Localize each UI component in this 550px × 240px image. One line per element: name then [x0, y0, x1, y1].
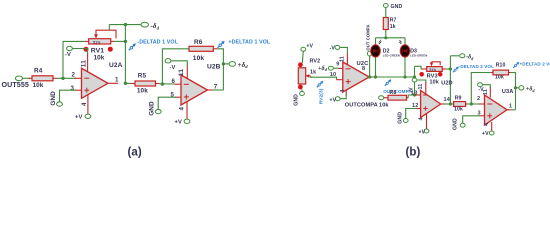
svg-text:10k: 10k [94, 54, 105, 61]
svg-text:GND: GND [398, 112, 404, 124]
junction pin2 node (b) [470, 102, 473, 105]
wire top to terminal [109, 24, 141, 26]
svg-text:OUT555: OUT555 [2, 81, 29, 89]
svg-text:4: 4 [178, 107, 185, 111]
svg-text:LED-GREEN: LED-GREEN [410, 54, 427, 58]
terminal +V RV2 [301, 44, 314, 52]
junction terminal branch [222, 62, 225, 65]
svg-text:+DELTAD 1 VOL: +DELTAD 1 VOL [228, 39, 271, 45]
svg-text:GND: GND [453, 118, 459, 130]
probe -DELTAD 1 VOL [129, 39, 179, 50]
op-amp U2B [171, 64, 221, 119]
svg-text:10k: 10k [454, 107, 463, 113]
svg-text:+δd: +δd [238, 61, 249, 69]
junction R7 [384, 36, 387, 39]
svg-text:11: 11 [81, 60, 88, 68]
svg-text:6: 6 [172, 78, 176, 85]
junction output [124, 82, 127, 85]
op-amp U2A [71, 53, 123, 114]
wire R9 to U3A pin2 [468, 103, 479, 105]
ground GND RV2 [294, 89, 305, 105]
svg-text:R9: R9 [455, 96, 462, 102]
probe RV2(3) [317, 81, 325, 104]
wire top corner to RV3 left [415, 66, 422, 69]
terminal OUT COMPA vertical [365, 24, 372, 77]
svg-text:4: 4 [484, 123, 490, 126]
power -V U2A [65, 46, 88, 58]
wire RV1 right to vertical bus [115, 40, 126, 42]
svg-text:GND: GND [50, 91, 57, 106]
wire vertical bus RV1/output [124, 25, 126, 84]
power -V U3A [478, 83, 491, 93]
wire LED tops to R7 [376, 37, 406, 39]
svg-text:10k: 10k [33, 82, 44, 89]
svg-text:R4: R4 [34, 67, 43, 74]
svg-text:-DELTAD 1 VOL: -DELTAD 1 VOL [137, 39, 178, 45]
wire pin2 node up to R10 [471, 73, 491, 105]
probe -DELTAD 2 VOL [453, 64, 494, 72]
resistor R5 [131, 72, 160, 94]
svg-text:GND: GND [149, 101, 156, 116]
junction RV1 right [124, 40, 127, 43]
svg-text:-DELTAD 2 VOL: -DELTAD 2 VOL [459, 64, 494, 69]
svg-text:10k: 10k [137, 88, 148, 95]
svg-text:R6: R6 [194, 39, 203, 46]
svg-text:U2A: U2A [109, 62, 123, 69]
svg-text:R8: R8 [390, 90, 397, 96]
svg-text:2: 2 [72, 72, 76, 79]
svg-text:51%: 51% [93, 40, 101, 44]
svg-text:R7: R7 [390, 18, 397, 24]
power +V U2B [175, 119, 190, 125]
svg-text:1: 1 [509, 104, 512, 110]
svg-text:1k: 1k [390, 24, 396, 30]
svg-text:+V: +V [330, 98, 337, 104]
svg-text:+DELTAD 2 VOL: +DELTAD 2 VOL [520, 61, 550, 66]
svg-text:(a): (a) [128, 147, 142, 159]
probe +DELTAD 2 VOL [513, 61, 550, 68]
svg-text:3: 3 [71, 85, 75, 92]
svg-text:10: 10 [330, 72, 336, 78]
probe OUT COMPA [383, 79, 412, 93]
wire out bus down to pin13 [414, 66, 416, 95]
svg-text:11: 11 [483, 89, 489, 95]
svg-text:+V: +V [482, 131, 489, 137]
terminal +deltad input [318, 66, 333, 72]
terminal +deltad (b) [519, 86, 536, 93]
wire U2D out to R9 [445, 103, 454, 105]
wire R6 right down to output [217, 49, 223, 90]
wire U2B out to corner [213, 89, 224, 91]
svg-text:U2B: U2B [207, 64, 221, 71]
wire R4 to U2A pin2 [57, 77, 76, 79]
svg-text:OUTCOMPA: OUTCOMPA [345, 103, 378, 109]
wire U2C out bus [373, 76, 415, 78]
wire OUT555 to R4 [23, 77, 30, 79]
svg-text:4: 4 [81, 102, 88, 106]
terminal -deltad [141, 22, 160, 30]
wire bus top to -deltad terminal [450, 55, 459, 57]
terminal OUT555 [2, 76, 29, 89]
junction top bus [124, 23, 127, 26]
op-amp U2C [330, 53, 373, 96]
svg-text:U2D: U2D [441, 80, 453, 86]
svg-text:LED-GREEN: LED-GREEN [383, 54, 400, 58]
junction out/down [413, 75, 416, 78]
resistor R9 [454, 96, 468, 113]
svg-text:11: 11 [178, 69, 185, 77]
wire to +deltad terminal [223, 63, 228, 65]
op-amp U2D [411, 80, 453, 128]
wire RV2 wiper to U2C pin10 [311, 76, 337, 80]
svg-text:-V: -V [479, 87, 485, 93]
svg-text:8: 8 [362, 66, 365, 72]
svg-text:10k: 10k [495, 74, 504, 80]
power -V U2D [409, 78, 426, 93]
wire +V to RV2 [302, 51, 303, 63]
svg-text:51%: 51% [430, 68, 437, 72]
wire RV3 right to feedback bus [446, 68, 450, 70]
potentiometer RV3 [419, 62, 446, 86]
svg-text:4: 4 [340, 90, 346, 93]
svg-text:+V: +V [75, 115, 82, 121]
power +V U2A [75, 114, 91, 120]
op-amp U3A [477, 87, 513, 131]
node pin2 junction [61, 77, 64, 80]
resistor R6 [189, 39, 217, 62]
svg-text:R10: R10 [496, 62, 506, 68]
wire +deltad to U2C pin9 [333, 67, 338, 69]
svg-text:(b): (b) [406, 147, 421, 159]
svg-text:+V: +V [175, 120, 182, 126]
power -V U2B [165, 59, 187, 71]
potentiometer RV2 [298, 58, 320, 89]
svg-text:+V: +V [306, 44, 313, 50]
wire pin6 node up to R6 [162, 49, 189, 84]
wire to +deltad (b) terminal [516, 87, 519, 89]
junction RV3/bus [449, 67, 452, 70]
svg-text:14: 14 [444, 97, 451, 103]
svg-text:-V: -V [409, 87, 415, 93]
power +V U2C [330, 95, 347, 104]
ground GND U2D pin12 [398, 109, 418, 124]
resistor R10 [491, 62, 511, 80]
terminal -deltad (b) [460, 54, 475, 61]
probe +DELTAD 1 VOL [218, 39, 271, 47]
junction out compa terminal [368, 75, 371, 78]
svg-text:-V: -V [170, 65, 176, 71]
svg-text:11: 11 [340, 56, 346, 62]
svg-text:+δd: +δd [526, 87, 536, 93]
svg-text:OUT COMPA: OUT COMPA [365, 24, 370, 50]
terminal +deltad [229, 61, 248, 69]
svg-text:-V: -V [65, 52, 71, 58]
ground GND U2A pin3 [50, 90, 76, 106]
svg-text:-δd: -δd [466, 55, 474, 61]
resistor R8 [379, 90, 408, 109]
svg-text:RV2: RV2 [310, 58, 321, 64]
junction pin13 [413, 93, 416, 96]
power +V U2D [419, 129, 429, 136]
ground GND U2B pin5 [149, 97, 177, 116]
power +V U3A [482, 131, 494, 137]
svg-text:D2: D2 [383, 48, 390, 54]
svg-text:10k: 10k [430, 79, 439, 85]
resistor R4 [29, 67, 57, 89]
svg-text:GND: GND [294, 94, 300, 106]
feedback bus vertical [449, 56, 451, 104]
svg-text:GND: GND [391, 4, 403, 10]
junction +deltad out branch [514, 86, 517, 89]
svg-text:D3: D3 [410, 48, 417, 54]
potentiometer RV1 [84, 30, 117, 61]
svg-text:+δd: +δd [318, 66, 328, 72]
ground GND U3A pin3 [453, 116, 481, 130]
wire U3A out to corner up [511, 109, 516, 111]
svg-text:-V: -V [330, 46, 336, 52]
wire pin2 node up to RV1 left [63, 41, 85, 78]
ground GND R7 [383, 4, 402, 10]
svg-text:10k: 10k [379, 103, 389, 109]
svg-text:+V: +V [419, 130, 426, 136]
svg-text:1k: 1k [310, 69, 316, 75]
svg-text:-δd: -δd [151, 22, 160, 30]
terminal OUTCOMPA [345, 96, 384, 109]
svg-text:RV2(3): RV2(3) [318, 88, 324, 104]
junction bus/out [449, 102, 452, 105]
wire R10 right down to output [511, 73, 516, 110]
svg-text:U3A: U3A [502, 89, 514, 95]
junction pin6 node [161, 82, 164, 85]
wire R8 jog to pin13 [408, 95, 415, 98]
svg-text:2: 2 [477, 96, 480, 102]
wire wiper feed from top [108, 25, 110, 31]
power -V U2C [330, 45, 348, 54]
svg-text:1: 1 [115, 77, 119, 84]
LED D3 [399, 38, 427, 79]
svg-text:10k: 10k [193, 55, 205, 62]
LED D2 [371, 38, 400, 79]
resistor R7 [383, 8, 396, 38]
wire R5 to pin6 [125, 82, 130, 84]
svg-text:11: 11 [418, 84, 424, 90]
svg-text:R5: R5 [138, 72, 147, 79]
svg-text:4: 4 [418, 117, 424, 120]
